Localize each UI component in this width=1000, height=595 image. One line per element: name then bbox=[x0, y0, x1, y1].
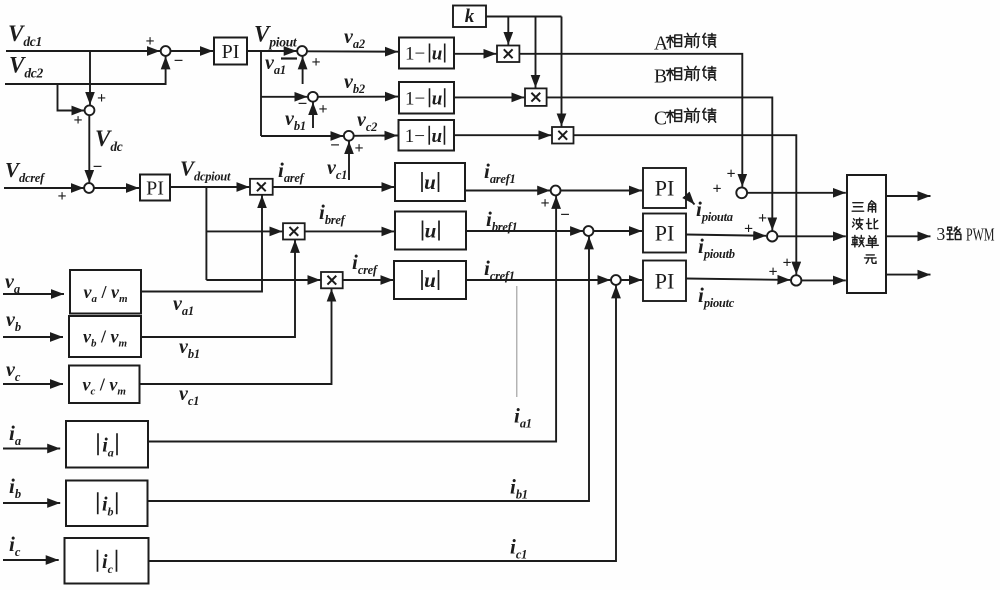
svg-text:+: + bbox=[758, 210, 767, 227]
svg-text:PI: PI bbox=[222, 41, 240, 63]
svg-text:u: u bbox=[432, 88, 443, 109]
svg-text:PI: PI bbox=[146, 178, 164, 200]
svg-text:+: + bbox=[768, 264, 777, 281]
svg-text:+: + bbox=[726, 166, 735, 183]
svg-text:+: + bbox=[712, 181, 721, 198]
svg-text:+: + bbox=[782, 255, 791, 272]
svg-text:B: B bbox=[654, 66, 667, 87]
svg-text:+: + bbox=[311, 54, 320, 71]
svg-text:+: + bbox=[318, 101, 327, 118]
svg-text:PI: PI bbox=[655, 221, 675, 246]
svg-text:+: + bbox=[354, 140, 363, 157]
svg-text:PI: PI bbox=[655, 176, 675, 201]
svg-text:+: + bbox=[540, 195, 549, 212]
svg-text:−: − bbox=[330, 136, 340, 155]
svg-text:+: + bbox=[145, 33, 154, 50]
svg-text:u: u bbox=[424, 170, 436, 194]
svg-text:PI: PI bbox=[655, 268, 675, 293]
svg-text:1−: 1− bbox=[405, 126, 425, 147]
svg-text:3: 3 bbox=[937, 224, 946, 244]
svg-text:−: − bbox=[560, 205, 570, 224]
svg-text:+: + bbox=[57, 188, 66, 205]
svg-text:1−: 1− bbox=[405, 88, 425, 109]
svg-text:PWM: PWM bbox=[966, 225, 995, 245]
svg-text:C: C bbox=[654, 108, 667, 129]
svg-text:A: A bbox=[654, 33, 668, 54]
svg-text:+: + bbox=[97, 90, 106, 107]
svg-text:−: − bbox=[93, 157, 103, 176]
svg-text:−: − bbox=[298, 94, 308, 113]
svg-text:u: u bbox=[432, 126, 443, 147]
svg-text:k: k bbox=[465, 6, 475, 27]
svg-text:u: u bbox=[424, 268, 436, 292]
svg-text:u: u bbox=[432, 44, 443, 65]
svg-text:u: u bbox=[425, 219, 437, 243]
svg-text:−: − bbox=[174, 51, 184, 70]
svg-text:+: + bbox=[73, 112, 82, 129]
svg-text:1−: 1− bbox=[405, 44, 425, 65]
